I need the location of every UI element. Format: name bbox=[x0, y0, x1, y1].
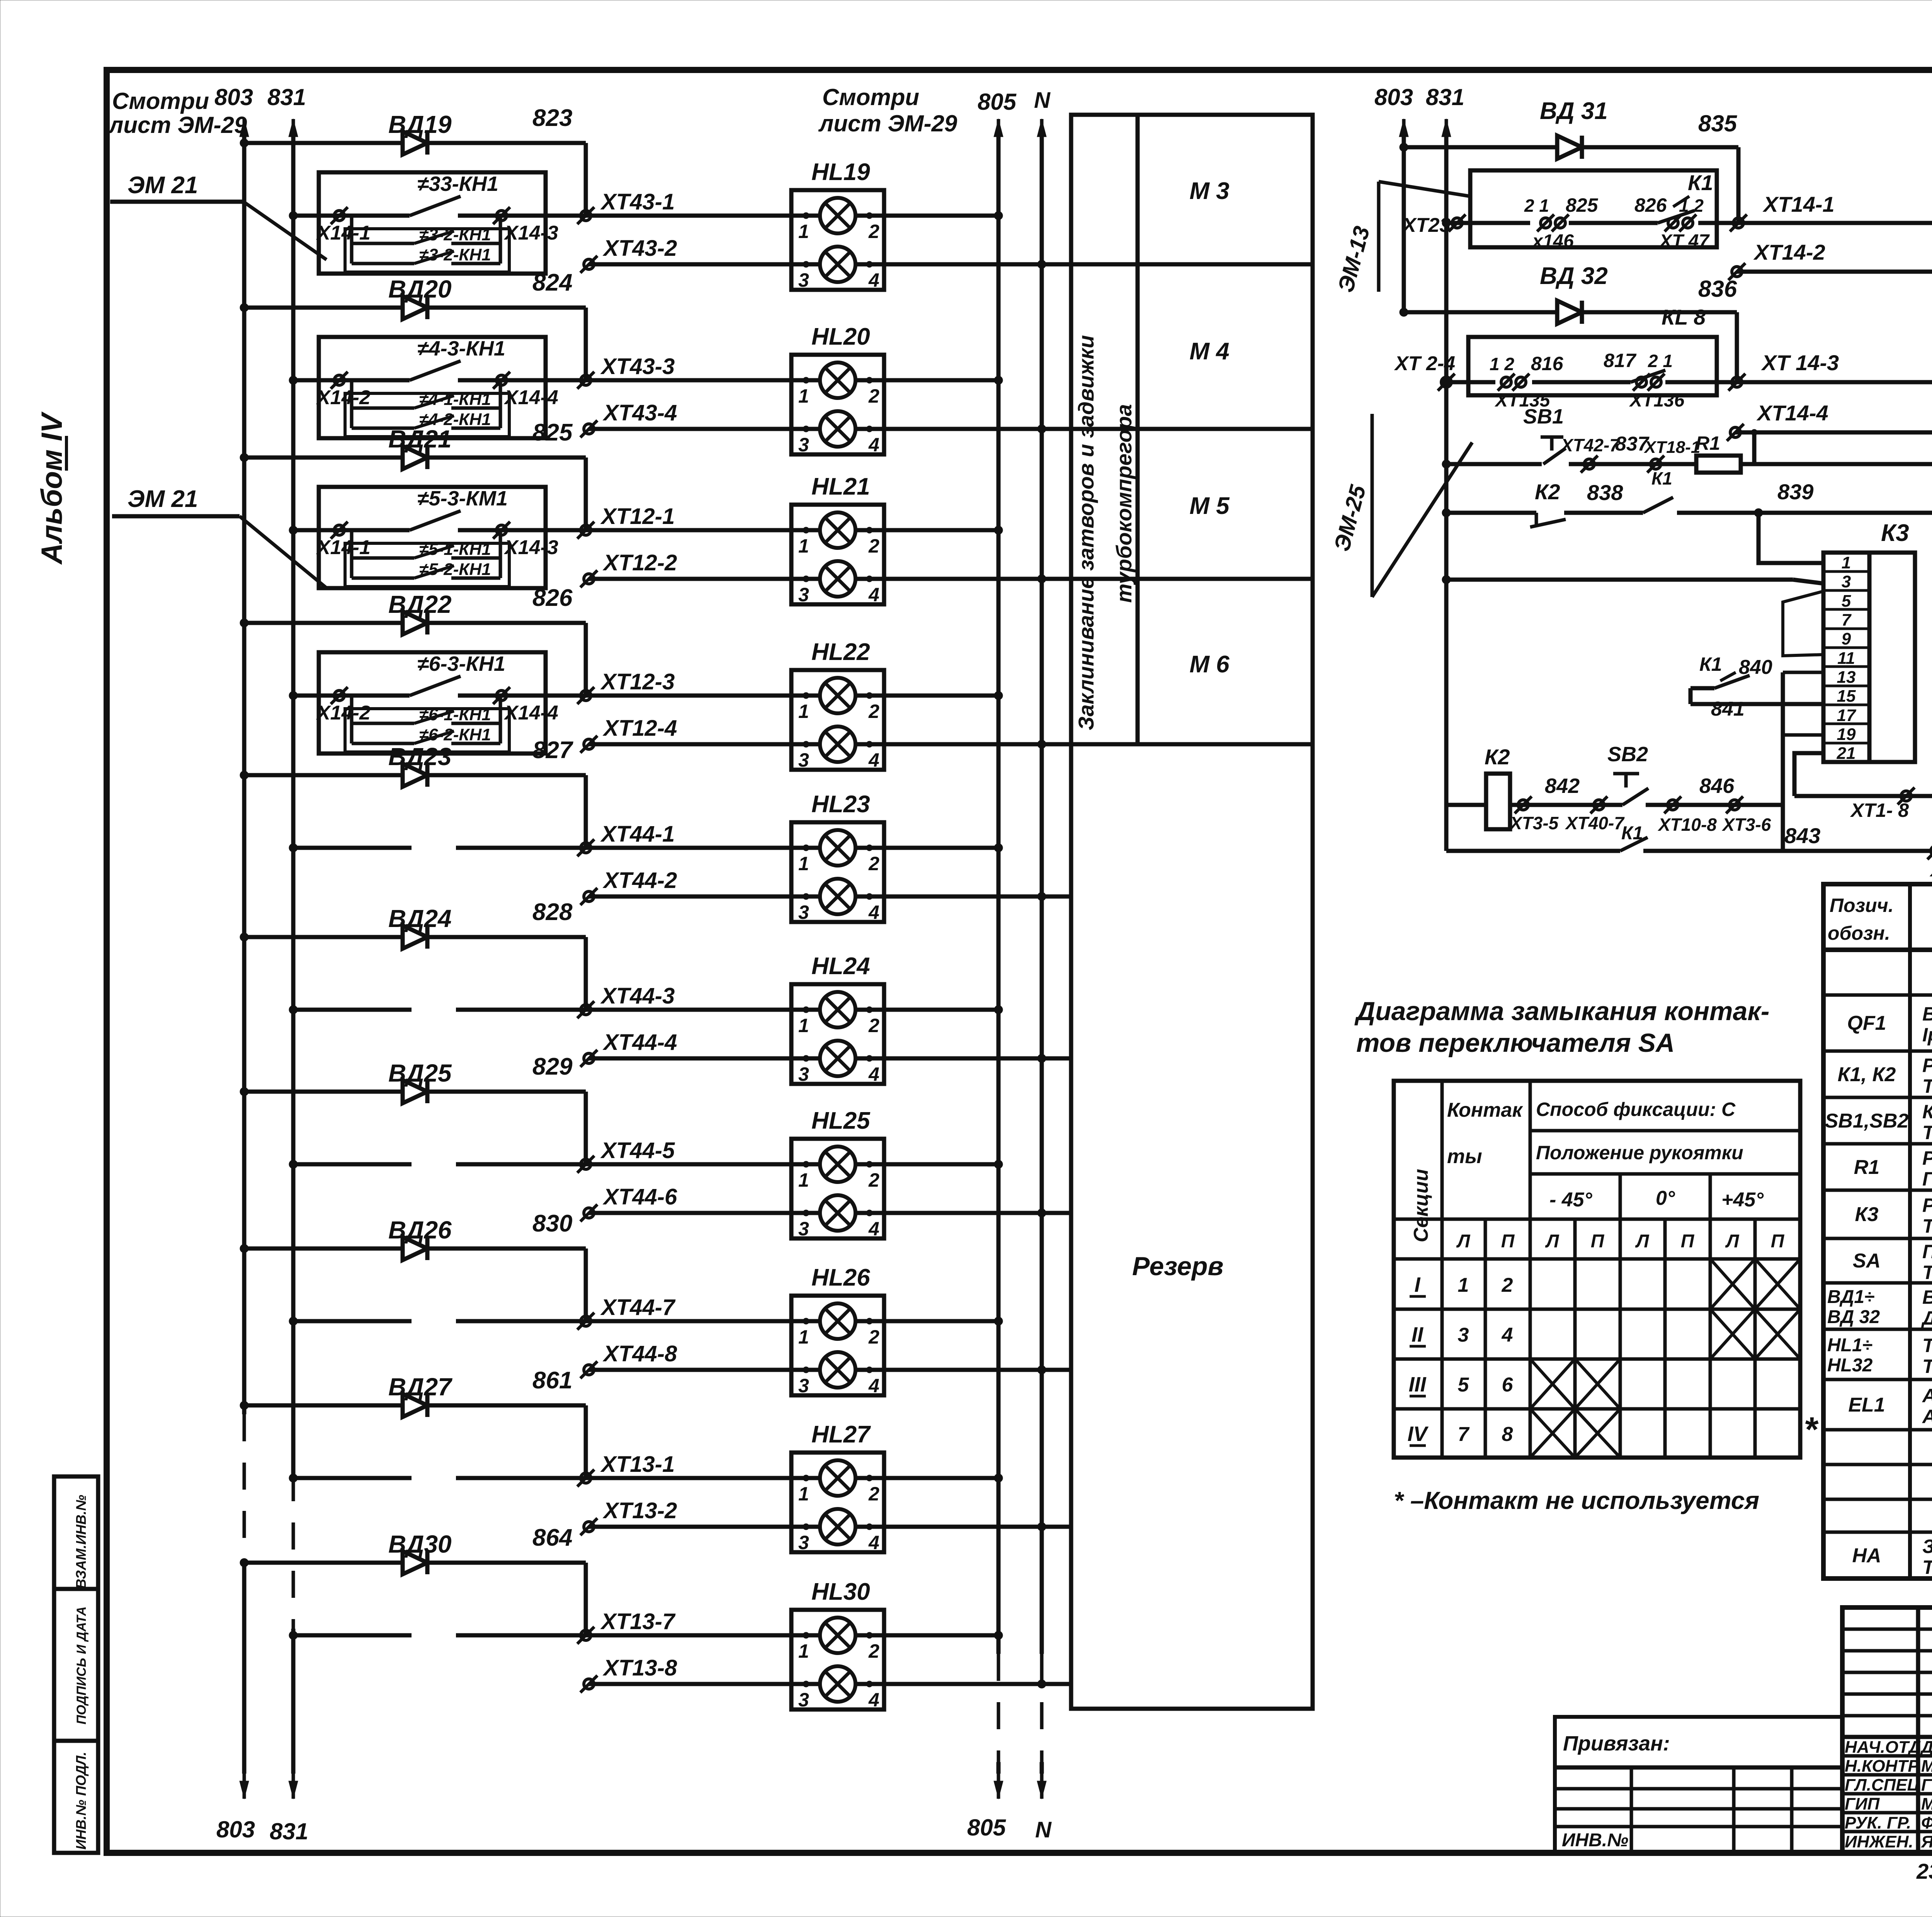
node 831 left bus bbox=[289, 119, 298, 146]
svg-text:HL32: HL32 bbox=[1827, 1355, 1873, 1376]
svg-text:7: 7 bbox=[1458, 1423, 1470, 1446]
svg-text:Д 2266.: Д 2266. bbox=[1921, 1307, 1932, 1329]
svg-text:обозн.: обозн. bbox=[1828, 922, 1890, 944]
svg-text:19: 19 bbox=[1837, 725, 1856, 744]
svg-text:≠4-1-КН1: ≠4-1-КН1 bbox=[419, 390, 491, 409]
wire to lamp HL31 bbox=[1738, 221, 1932, 225]
wire contact row ВД20 bbox=[293, 378, 410, 383]
svg-text:841: 841 bbox=[1711, 698, 1745, 720]
svg-text:Контак: Контак bbox=[1447, 1099, 1523, 1121]
svg-text:846: 846 bbox=[1699, 774, 1735, 798]
svg-text:Резистор ПЭВР-100-2.2 ком±10%: Резистор ПЭВР-100-2.2 ком±10% bbox=[1922, 1147, 1932, 1169]
svg-text:ВД22: ВД22 bbox=[388, 590, 452, 618]
svg-text:ТУ 16 -535. 421-70: ТУ 16 -535. 421-70 bbox=[1922, 1356, 1932, 1377]
aux contact ≠6-2-КН1 bbox=[352, 742, 414, 745]
terminal Х14-3 bbox=[493, 522, 510, 539]
svg-text:QF1: QF1 bbox=[1847, 1012, 1886, 1034]
wire lamp HL24 pin2 to 805 bbox=[854, 1008, 998, 1012]
wire lamp HL26 pin4 to N bbox=[854, 1368, 1071, 1372]
wire 838 row bbox=[1446, 511, 1536, 515]
svg-text:4: 4 bbox=[868, 749, 879, 771]
terminal XT14-3 bbox=[1728, 374, 1745, 391]
svg-text:2: 2 bbox=[868, 1483, 879, 1505]
wire 828 diode row ВД24 bbox=[244, 935, 586, 939]
svg-text:ХТ3-5: ХТ3-5 bbox=[1509, 813, 1559, 833]
wire ХТ44-3 to lamp bbox=[586, 1008, 822, 1012]
wire ХТ44-1 to lamp bbox=[586, 846, 822, 850]
svg-text:803: 803 bbox=[1374, 84, 1413, 110]
svg-text:827: 827 bbox=[532, 737, 573, 764]
svg-text:ГОСТ 6513-151.: ГОСТ 6513-151. bbox=[1922, 1168, 1932, 1190]
svg-text:ГЛ.СПЕЦ: ГЛ.СПЕЦ bbox=[1845, 1776, 1920, 1795]
svg-text:≠6-2-КН1: ≠6-2-КН1 bbox=[419, 725, 491, 744]
wire K3 pin13 stub bbox=[1783, 671, 1823, 674]
svg-text:ВД25: ВД25 bbox=[388, 1059, 452, 1087]
svg-text:17: 17 bbox=[1837, 706, 1857, 725]
svg-text:ВД26: ВД26 bbox=[388, 1216, 452, 1244]
svg-text:* –Контакт не используется: * –Контакт не используется bbox=[1394, 1487, 1759, 1514]
svg-text:ВД21: ВД21 bbox=[388, 425, 452, 453]
svg-text:816: 816 bbox=[1531, 353, 1564, 374]
terminal ХТ44-3 bbox=[577, 1001, 594, 1018]
wire 839 bbox=[1677, 511, 1932, 515]
relay contact box KL8 bbox=[1468, 337, 1717, 395]
svg-text:ИНВ.№ ПОДЛ.: ИНВ.№ ПОДЛ. bbox=[73, 1752, 89, 1849]
node N left bus bbox=[1037, 119, 1046, 146]
svg-text:Iр=3,5Iн А ТУ16-522.139-78: Iр=3,5Iн А ТУ16-522.139-78 bbox=[1922, 1024, 1932, 1046]
svg-text:ХТ13-1: ХТ13-1 bbox=[600, 1452, 675, 1477]
wire contact row ВД25 (external) bbox=[293, 1162, 412, 1167]
terminal Х14-2 bbox=[331, 687, 348, 704]
svg-text:4: 4 bbox=[868, 1063, 879, 1085]
wire ХТ13-1 to lamp bbox=[586, 1476, 822, 1480]
svg-text:ХТ12-1: ХТ12-1 bbox=[600, 504, 675, 529]
wire 845 bbox=[1794, 794, 1932, 798]
wire contact row ВД30 (external) bbox=[293, 1633, 412, 1638]
svg-text:840: 840 bbox=[1739, 656, 1772, 679]
svg-text:НАЧ.ОТД: НАЧ.ОТД bbox=[1845, 1738, 1921, 1757]
svg-text:3: 3 bbox=[798, 434, 809, 456]
svg-text:ХТ44-5: ХТ44-5 bbox=[600, 1138, 675, 1163]
svg-text:ВД23: ВД23 bbox=[388, 743, 452, 771]
svg-text:1: 1 bbox=[798, 1640, 809, 1662]
svg-text:ХТ43-4: ХТ43-4 bbox=[602, 400, 677, 425]
svg-text:ХТ44-8: ХТ44-8 bbox=[602, 1341, 677, 1366]
wire ХТ13-8 to lamp bbox=[589, 1682, 822, 1686]
svg-text:≠5-1-КН1: ≠5-1-КН1 bbox=[419, 540, 491, 559]
svg-text:826: 826 bbox=[1634, 194, 1667, 216]
wire lamp HL25 pin2 to 805 bbox=[854, 1162, 998, 1167]
svg-text:1: 1 bbox=[798, 535, 809, 557]
svg-text:ГИП: ГИП bbox=[1845, 1795, 1880, 1813]
svg-text:831: 831 bbox=[1426, 84, 1464, 110]
svg-text:4: 4 bbox=[868, 584, 879, 606]
wire contact row ВД22 bbox=[293, 694, 410, 698]
svg-text:III: III bbox=[1408, 1373, 1426, 1396]
svg-text:Резерв: Резерв bbox=[1132, 1252, 1224, 1281]
svg-text:ВД19: ВД19 bbox=[388, 111, 452, 138]
svg-text:2 1: 2 1 bbox=[1648, 351, 1673, 371]
svg-text:2: 2 bbox=[1502, 1274, 1513, 1296]
svg-text:ХТ43-1: ХТ43-1 bbox=[600, 189, 675, 214]
diode VD32 bbox=[1543, 301, 1597, 324]
wire ХТ43-2 to lamp bbox=[589, 262, 822, 267]
svg-text:4: 4 bbox=[868, 434, 879, 456]
svg-text:РУК. ГР.: РУК. ГР. bbox=[1845, 1813, 1911, 1832]
svg-text:4: 4 bbox=[868, 1375, 879, 1397]
svg-text:П: П bbox=[1681, 1231, 1695, 1252]
svg-text:Х14-2: Х14-2 bbox=[316, 386, 371, 409]
svg-text:11: 11 bbox=[1837, 649, 1855, 668]
svg-text:ХТ44-1: ХТ44-1 bbox=[600, 822, 675, 847]
svg-text:≠5-3-КМ1: ≠5-3-КМ1 bbox=[417, 487, 508, 510]
svg-text:ХТ18-1: ХТ18-1 bbox=[1643, 438, 1700, 457]
svg-text:825: 825 bbox=[1566, 194, 1599, 216]
wire 823 diode row ВД19 bbox=[244, 141, 586, 145]
svg-text:К1, К2: К1, К2 bbox=[1838, 1063, 1896, 1086]
svg-text:НА: НА bbox=[1852, 1544, 1881, 1567]
svg-text:Смотри: Смотри bbox=[112, 88, 209, 114]
wire ХТ43-4 to lamp bbox=[589, 427, 822, 431]
svg-text:ВД 31: ВД 31 bbox=[1540, 98, 1608, 124]
terminal ХТ44-7 bbox=[577, 1313, 594, 1330]
aux contacts ≠5-1-КН1 bbox=[345, 543, 509, 587]
svg-text:805: 805 bbox=[978, 89, 1017, 115]
diode ВД24 bbox=[389, 925, 443, 949]
svg-text:825: 825 bbox=[532, 419, 573, 446]
svg-text:ХТ3-6: ХТ3-6 bbox=[1721, 815, 1771, 835]
svg-text:829: 829 bbox=[532, 1053, 573, 1080]
svg-text:П: П bbox=[1771, 1231, 1785, 1252]
wire lamp HL27 pin2 to 805 bbox=[854, 1476, 998, 1480]
title block bbox=[1842, 1607, 1932, 1853]
svg-text:Положение рукоятки: Положение рукоятки bbox=[1536, 1142, 1743, 1163]
svg-text:ХТ44-4: ХТ44-4 bbox=[602, 1030, 677, 1055]
svg-text:2: 2 bbox=[868, 535, 879, 557]
svg-text:ВД27: ВД27 bbox=[388, 1373, 453, 1401]
wire contact row ВД19 bbox=[293, 214, 410, 218]
wire ХТ13-7 to lamp bbox=[586, 1633, 822, 1638]
svg-text:9: 9 bbox=[1842, 629, 1851, 648]
svg-text:М 5: М 5 bbox=[1189, 493, 1230, 519]
terminal XT2-4 bbox=[1438, 374, 1455, 391]
svg-text:2: 2 bbox=[868, 853, 879, 874]
contact ≠6-3-КН1 bbox=[410, 676, 461, 696]
svg-text:ты: ты bbox=[1447, 1145, 1482, 1168]
terminal XT3-5 bbox=[1515, 796, 1532, 813]
contact ≠5-3-КМ1 bbox=[410, 511, 461, 530]
wire K1-840 down to 843 row bbox=[1781, 672, 1785, 851]
diode ВД22 bbox=[389, 611, 443, 634]
svg-text:838: 838 bbox=[1587, 480, 1623, 505]
svg-text:М 4: М 4 bbox=[1189, 338, 1229, 365]
svg-text:N: N bbox=[1034, 88, 1051, 113]
svg-text:ХТ12-3: ХТ12-3 bbox=[600, 669, 675, 694]
terminal ХТ13-1 bbox=[577, 1470, 594, 1487]
svg-text:Л: Л bbox=[1725, 1231, 1740, 1252]
lamp HL22 bbox=[791, 670, 884, 770]
svg-text:ДАНИЛОВ: ДАНИЛОВ bbox=[1920, 1738, 1932, 1757]
contact group box ≠4-3-КН1 bbox=[319, 337, 546, 438]
svg-text:II: II bbox=[1412, 1323, 1423, 1346]
contact K1 row 839 bbox=[1643, 497, 1673, 513]
wire 835 diode row VD31 bbox=[1404, 145, 1738, 150]
diode ВД21 bbox=[389, 446, 443, 469]
diode ВД20 bbox=[389, 296, 443, 319]
svg-text:К3: К3 bbox=[1855, 1203, 1879, 1226]
svg-text:4: 4 bbox=[868, 269, 879, 291]
terminal XT10-8 bbox=[1664, 796, 1681, 813]
svg-text:826: 826 bbox=[532, 585, 573, 611]
wire lamp HL27 pin4 to N bbox=[854, 1525, 1071, 1529]
terminal ХТ12-2 bbox=[580, 570, 597, 587]
diode ВД25 bbox=[389, 1080, 443, 1103]
svg-text:ХТ12-4: ХТ12-4 bbox=[602, 716, 677, 741]
SA table X marks bbox=[1710, 1259, 1755, 1309]
svg-text:ТУ16 - 739.059-76: ТУ16 - 739.059-76 bbox=[1922, 1556, 1932, 1578]
wire lamp HL21 pin2 to 805 bbox=[854, 528, 998, 532]
wire 826 diode row ВД22 bbox=[244, 621, 586, 625]
svg-text:ХТ 47: ХТ 47 bbox=[1658, 231, 1710, 252]
svg-text:Позич.: Позич. bbox=[1830, 895, 1894, 916]
svg-text:2: 2 bbox=[868, 1015, 879, 1036]
wire ХТ43-3 to lamp bbox=[586, 378, 822, 383]
svg-text:13: 13 bbox=[1837, 668, 1856, 687]
svg-text:831: 831 bbox=[267, 84, 306, 110]
wire lamp HL22 pin2 to 805 bbox=[854, 694, 998, 698]
terminal ХТ43-4 bbox=[580, 420, 597, 437]
svg-text:SB2: SB2 bbox=[1607, 743, 1648, 766]
wire contact row ВД27 (external) bbox=[293, 1476, 412, 1480]
svg-text:7: 7 bbox=[1842, 611, 1852, 629]
svg-text:П: П bbox=[1501, 1231, 1515, 1252]
wire 842 row bbox=[1446, 803, 1486, 807]
svg-text:Реле РПУ-2М142О УЗБ ~220В, 4з: Реле РПУ-2М142О УЗБ ~220В, 4з+ 2р bbox=[1922, 1055, 1932, 1076]
svg-text:ВД 32: ВД 32 bbox=[1540, 263, 1608, 289]
svg-text:831: 831 bbox=[270, 1818, 308, 1844]
svg-text:1: 1 bbox=[1842, 553, 1851, 572]
wire R1 to 805 bbox=[1741, 462, 1932, 466]
svg-text:ТУ16 -523.331-78: ТУ16 -523.331-78 bbox=[1922, 1075, 1932, 1097]
svg-text:К1: К1 bbox=[1688, 170, 1713, 195]
aux contact ≠3-2-КН1 bbox=[352, 262, 414, 265]
svg-text:1: 1 bbox=[798, 385, 809, 407]
svg-text:К3: К3 bbox=[1881, 520, 1909, 546]
terminal ХТ44-1 bbox=[577, 839, 594, 856]
svg-text:Х14-1: Х14-1 bbox=[316, 222, 371, 244]
terminal XT40-7 bbox=[1590, 796, 1607, 813]
svg-text:HL26: HL26 bbox=[811, 1264, 870, 1291]
wire ХТ44-2 to lamp bbox=[589, 895, 822, 899]
lamp HL21 bbox=[791, 505, 884, 604]
diode ВД27 bbox=[389, 1394, 443, 1417]
parts list table bbox=[1823, 884, 1932, 1579]
svg-text:Альбом IV: Альбом IV bbox=[36, 412, 68, 565]
wire ХТ44-6 to lamp bbox=[589, 1211, 822, 1215]
wire contact row 835 bbox=[1446, 221, 1530, 225]
wire lamp HL30 pin2 to 805 bbox=[854, 1633, 998, 1638]
svg-text:4: 4 bbox=[868, 902, 879, 923]
terminal Х14-2 bbox=[331, 372, 348, 389]
wire K3 pin21 to 845 bbox=[1794, 753, 1823, 796]
svg-text:≠3-2-КН1: ≠3-2-КН1 bbox=[419, 225, 491, 244]
svg-text:ВД24: ВД24 bbox=[388, 905, 452, 932]
svg-text:3: 3 bbox=[798, 269, 809, 291]
svg-text:R1: R1 bbox=[1854, 1156, 1879, 1179]
svg-text:ИНЖЕН.: ИНЖЕН. bbox=[1845, 1832, 1913, 1851]
svg-text:Заклинивание затворов и задвиж: Заклинивание затворов и задвижки bbox=[1074, 335, 1098, 730]
svg-text:ВД30: ВД30 bbox=[388, 1530, 452, 1558]
svg-text:Звонок ЗВП ~220В: Звонок ЗВП ~220В bbox=[1922, 1536, 1932, 1557]
svg-text:≠6-3-КН1: ≠6-3-КН1 bbox=[417, 652, 505, 675]
svg-text:3: 3 bbox=[1458, 1324, 1469, 1346]
svg-text:861: 861 bbox=[532, 1367, 572, 1394]
svg-text:SА: SА bbox=[1853, 1250, 1881, 1272]
svg-text:ХТ136: ХТ136 bbox=[1629, 390, 1685, 411]
svg-text:ХТ 2-4: ХТ 2-4 bbox=[1394, 352, 1455, 375]
wire 824 diode row ВД20 bbox=[244, 306, 586, 310]
svg-text:Х14-3: Х14-3 bbox=[503, 222, 558, 244]
svg-text:3: 3 bbox=[798, 1689, 809, 1711]
wire contact row ВД24 (external) bbox=[293, 1008, 412, 1012]
terminal Х14-1 bbox=[331, 207, 348, 224]
contact KL8 row2 bbox=[1490, 350, 1685, 411]
wire K3 pins 5-11 bracket bbox=[1783, 591, 1823, 656]
node 831 right bus bbox=[1442, 119, 1451, 146]
terminal ХТ13-7 bbox=[577, 1627, 594, 1644]
svg-text:≠4-3-КН1: ≠4-3-КН1 bbox=[417, 337, 505, 360]
wire 830 diode row ВД26 bbox=[244, 1247, 586, 1251]
svg-text:ЭМ 21: ЭМ 21 bbox=[128, 172, 198, 199]
terminal XT23-6 bbox=[1449, 214, 1466, 231]
wire contact row ВД23 (external) bbox=[293, 846, 412, 850]
wire lamp HL21 pin4 to N bbox=[854, 577, 1071, 581]
svg-text:3: 3 bbox=[798, 749, 809, 771]
wire lamp HL25 pin4 to N bbox=[854, 1211, 1071, 1215]
svg-text:КL 8: КL 8 bbox=[1662, 305, 1706, 329]
svg-text:Л: Л bbox=[1635, 1231, 1650, 1252]
terminal ХТ13-8 bbox=[580, 1675, 597, 1692]
wire K3 pin19 stub bbox=[1783, 733, 1823, 737]
svg-text:ХТ10-8: ХТ10-8 bbox=[1657, 815, 1717, 835]
wire ХТ12-2 to lamp bbox=[589, 577, 822, 581]
lamp HL19 bbox=[791, 190, 884, 290]
svg-text:Х14-2: Х14-2 bbox=[316, 702, 371, 724]
contact group box ≠33-КН1 bbox=[319, 172, 546, 274]
svg-text:ВД20: ВД20 bbox=[388, 275, 452, 303]
svg-text:ВД1÷: ВД1÷ bbox=[1827, 1287, 1874, 1307]
SA diagram table bbox=[1394, 1081, 1800, 1458]
wire ХТ12-3 to lamp bbox=[586, 694, 822, 698]
svg-text:ХТ43-2: ХТ43-2 bbox=[602, 236, 677, 261]
svg-text:ГОЛЬЦМАН: ГОЛЬЦМАН bbox=[1921, 1776, 1932, 1795]
terminal ХТ44-5 bbox=[577, 1156, 594, 1173]
svg-text:2: 2 bbox=[868, 701, 879, 722]
node 803 right bus bbox=[1399, 119, 1408, 146]
svg-text:2: 2 bbox=[868, 385, 879, 407]
terminal Х14-1 bbox=[331, 522, 348, 539]
svg-text:тов переключателя SА: тов переключателя SА bbox=[1356, 1028, 1675, 1058]
svg-text:3: 3 bbox=[798, 1218, 809, 1240]
svg-text:ХТ40-7: ХТ40-7 bbox=[1565, 813, 1625, 833]
wire to lamp HL32 bbox=[1737, 380, 1932, 384]
svg-text:ПОДПИСЬ И ДАТА: ПОДПИСЬ И ДАТА bbox=[74, 1606, 89, 1725]
wire 841 bbox=[1690, 702, 1823, 706]
wire contact row ВД26 (external) bbox=[293, 1319, 412, 1323]
binding box bbox=[1555, 1717, 1842, 1853]
terminal Х14-4 bbox=[493, 372, 510, 389]
svg-text:3: 3 bbox=[1842, 572, 1851, 591]
wire ХТ43-1 to lamp bbox=[586, 214, 822, 218]
svg-text:2: 2 bbox=[868, 221, 879, 242]
svg-text:Смотри: Смотри bbox=[822, 84, 919, 110]
svg-text:803: 803 bbox=[216, 1817, 255, 1842]
svg-text:ВЗАМ.ИНВ.№: ВЗАМ.ИНВ.№ bbox=[73, 1495, 89, 1589]
wire contact row ВД21 bbox=[293, 528, 410, 532]
contact K1 row1 bbox=[1524, 194, 1710, 252]
wire 836 diode row VD32 bbox=[1404, 310, 1737, 315]
svg-text:ХТ1- 8: ХТ1- 8 bbox=[1850, 799, 1909, 821]
svg-text:805: 805 bbox=[967, 1815, 1007, 1840]
svg-text:3: 3 bbox=[798, 584, 809, 606]
terminal XT14-2 bbox=[1728, 263, 1745, 280]
diode ВД26 bbox=[389, 1237, 443, 1260]
contact group box ≠6-3-КН1 bbox=[319, 652, 546, 754]
svg-text:К1: К1 bbox=[1651, 468, 1672, 488]
terminal XT42-7 bbox=[1569, 462, 1696, 466]
wire contact row 836 bbox=[1446, 380, 1495, 384]
resistor R1 bbox=[1696, 456, 1741, 473]
svg-text:П: П bbox=[1591, 1231, 1605, 1252]
svg-text:4: 4 bbox=[868, 1532, 879, 1553]
svg-text:5: 5 bbox=[1458, 1374, 1469, 1396]
svg-text:HL1÷: HL1÷ bbox=[1827, 1335, 1872, 1356]
svg-text:Х14-4: Х14-4 bbox=[503, 702, 558, 724]
svg-text:ХТ13-2: ХТ13-2 bbox=[602, 1498, 677, 1523]
svg-text:817: 817 bbox=[1604, 350, 1637, 371]
node 803 left bus bbox=[240, 119, 249, 146]
wire ХТ44-4 to lamp bbox=[589, 1056, 822, 1061]
svg-text:ХТ43-3: ХТ43-3 bbox=[600, 354, 675, 379]
relay K3 contact stack bbox=[1823, 553, 1869, 762]
svg-text:1: 1 bbox=[798, 1326, 809, 1348]
svg-text:Привязан:: Привязан: bbox=[1563, 1732, 1670, 1755]
svg-text:- 45°: - 45° bbox=[1549, 1189, 1593, 1211]
terminal ХТ44-4 bbox=[580, 1050, 597, 1067]
svg-text:+45°: +45° bbox=[1721, 1189, 1764, 1211]
svg-text:835: 835 bbox=[1698, 111, 1738, 136]
svg-text:SB1: SB1 bbox=[1523, 405, 1564, 428]
lamp HL27 bbox=[791, 1453, 884, 1552]
wire 837 row SB1 bbox=[1446, 462, 1542, 466]
svg-text:823: 823 bbox=[532, 105, 572, 131]
lamp HL30 bbox=[791, 1610, 884, 1709]
svg-text:≠33-КН1: ≠33-КН1 bbox=[417, 172, 498, 196]
svg-text:N: N bbox=[1035, 1817, 1052, 1842]
svg-text:1: 1 bbox=[798, 1015, 809, 1036]
wire lamp HL23 pin2 to 805 bbox=[854, 846, 998, 850]
svg-text:HL25: HL25 bbox=[811, 1107, 871, 1134]
svg-text:ХТ44-7: ХТ44-7 bbox=[600, 1295, 676, 1320]
svg-text:М 6: М 6 bbox=[1189, 651, 1230, 678]
svg-text:1: 1 bbox=[798, 1169, 809, 1191]
svg-text:864: 864 bbox=[532, 1524, 572, 1551]
svg-text:ХТ14-4: ХТ14-4 bbox=[1756, 401, 1828, 425]
svg-text:HL24: HL24 bbox=[811, 953, 870, 980]
svg-text:HL21: HL21 bbox=[811, 473, 870, 500]
svg-text:4: 4 bbox=[1502, 1324, 1513, 1346]
svg-text:1: 1 bbox=[1458, 1274, 1469, 1296]
